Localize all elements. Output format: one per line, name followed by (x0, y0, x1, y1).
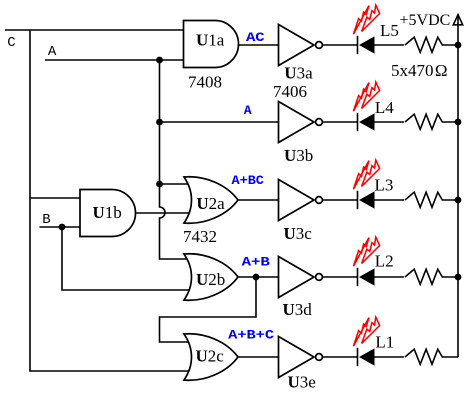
svg-text:U2c: U2c (196, 347, 225, 366)
svg-text:7406: 7406 (273, 82, 307, 101)
svg-text:U1a: U1a (196, 31, 225, 50)
svg-text:B: B (42, 212, 50, 228)
svg-text:U2a: U2a (196, 194, 225, 213)
svg-text:U2b: U2b (196, 270, 225, 289)
svg-text:U3a: U3a (284, 64, 313, 83)
svg-text:5x470 Ω: 5x470 Ω (391, 61, 448, 80)
svg-text:L2: L2 (375, 252, 394, 271)
svg-text:C: C (7, 35, 15, 51)
svg-text:U3e: U3e (288, 373, 316, 392)
svg-text:L5: L5 (380, 21, 399, 40)
svg-text:7432: 7432 (183, 227, 217, 246)
svg-text:U1b: U1b (93, 203, 122, 222)
svg-text:A: A (244, 103, 252, 118)
svg-text:U3b: U3b (284, 146, 313, 165)
svg-text:+5VDC: +5VDC (400, 12, 451, 29)
svg-text:AC: AC (246, 30, 265, 45)
svg-text:U3c: U3c (284, 224, 313, 243)
svg-text:A+B: A+B (242, 255, 270, 270)
svg-text:L4: L4 (375, 98, 394, 117)
svg-text:L3: L3 (375, 176, 394, 195)
svg-text:A: A (48, 44, 57, 60)
svg-text:A+BC: A+BC (232, 173, 265, 188)
svg-text:A+B+C: A+B+C (228, 328, 274, 343)
svg-text:U3d: U3d (283, 300, 313, 319)
svg-text:L1: L1 (375, 333, 394, 352)
svg-text:7408: 7408 (188, 73, 222, 92)
